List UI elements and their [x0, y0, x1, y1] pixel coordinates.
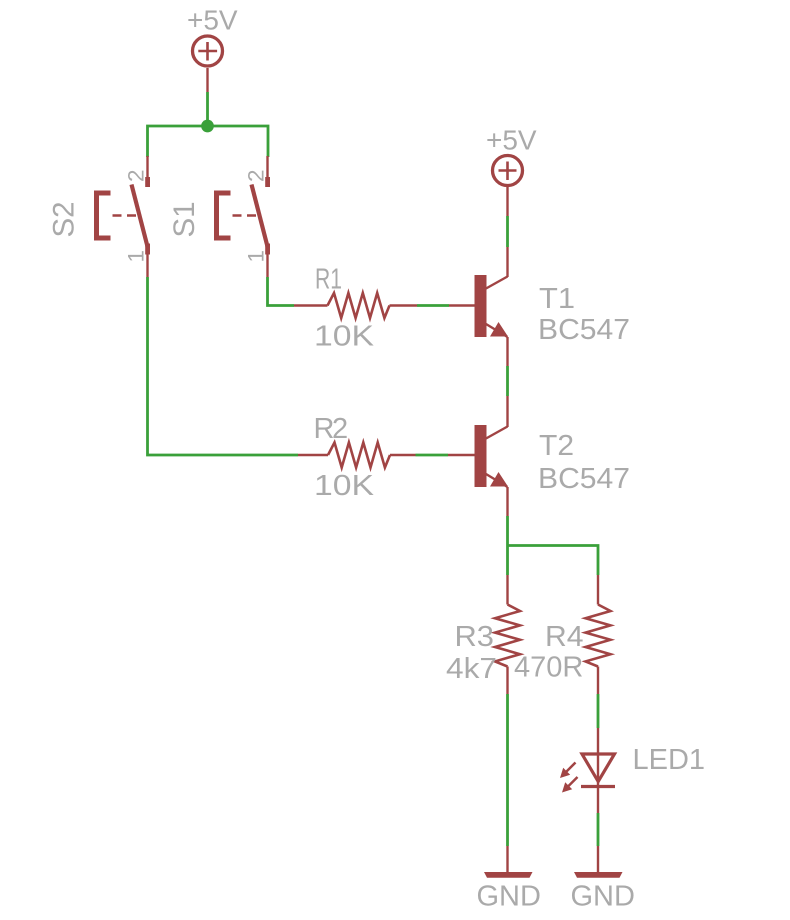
svg-text:4k7: 4k7 [446, 653, 497, 685]
svg-text:R4: R4 [545, 621, 584, 653]
junction dot [201, 120, 214, 133]
svg-text:+5V: +5V [187, 5, 238, 36]
wire S1 pin1 down to R1 row [268, 277, 295, 306]
resistor R2 [298, 443, 416, 468]
svg-text:GND: GND [477, 881, 541, 913]
ground GND (left) [484, 846, 533, 878]
wire horizontal bus to switches [148, 126, 269, 157]
svg-text:470R: 470R [514, 652, 583, 684]
wire R4 bottom to LED [597, 694, 600, 728]
svg-text:GND: GND [571, 881, 635, 913]
svg-text:BC547: BC547 [538, 463, 630, 495]
wire R3 bottom to GND [506, 694, 509, 846]
LED LED1 [560, 728, 615, 813]
switch S2 [94, 156, 150, 277]
transistor T2 [475, 396, 509, 516]
svg-text:T1: T1 [539, 283, 575, 315]
wire T1 emitter to T2 collector [506, 366, 509, 396]
svg-text:2: 2 [244, 169, 269, 182]
svg-text:10K: 10K [314, 470, 375, 502]
transistor T1 [475, 247, 509, 366]
svg-text:2: 2 [124, 169, 149, 182]
wire +5V to T1 collector [506, 216, 509, 247]
wire LED to GND [597, 813, 600, 846]
svg-text:S2: S2 [48, 201, 81, 237]
resistor R1 [294, 293, 417, 318]
wire S2 pin1 down to R2 row [148, 277, 299, 455]
wire branch to R4 [508, 546, 599, 576]
wire T2 emitter down and branch to R4 [506, 516, 509, 575]
svg-text:+5V: +5V [486, 125, 537, 156]
svg-text:R1: R1 [315, 264, 342, 296]
svg-text:1: 1 [244, 250, 269, 263]
resistor R3 [495, 575, 520, 694]
supply symbol +5V (right) [493, 156, 523, 217]
resistor R4 [586, 575, 611, 694]
svg-text:R2: R2 [314, 413, 347, 445]
switch S1 [214, 156, 270, 277]
ground GND (right) [574, 846, 623, 878]
svg-text:1: 1 [124, 250, 149, 263]
supply symbol +5V (left) [193, 36, 223, 92]
svg-text:S1: S1 [168, 201, 201, 237]
svg-text:R3: R3 [455, 621, 495, 653]
wire R2 to T2 base [416, 454, 449, 457]
svg-text:BC547: BC547 [538, 314, 630, 346]
wire R1 to T1 base [417, 304, 449, 307]
T2 base pin [448, 454, 475, 456]
svg-text:T2: T2 [539, 430, 574, 462]
svg-text:LED1: LED1 [633, 744, 706, 776]
wire from +5V to junction [206, 92, 209, 126]
T1 base pin [449, 304, 475, 306]
svg-text:10K: 10K [314, 321, 375, 353]
